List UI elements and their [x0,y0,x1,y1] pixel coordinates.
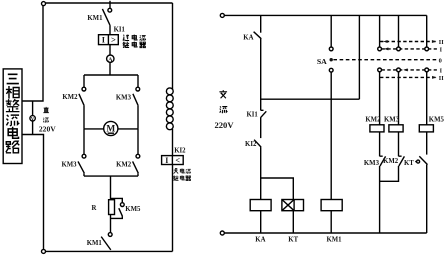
label: 欠电流继电器 (undercurrent relay) [173,169,190,181]
wire: selector column 1 upper [379,15,381,47]
node: SA position line I (lower, dashed) [382,69,437,71]
wire: undercurrent relay down to bottom bus [172,165,174,252]
switch SA selector (lower contact) [329,68,333,72]
inductor L smoothing reactor [166,88,173,130]
wire: KT coil to bottom bus [292,211,294,233]
svg-text:KI1: KI1 [114,27,126,34]
contact SA column3 upper circle [425,47,429,51]
svg-text:R: R [91,205,96,212]
wire: lower jog from rectifier box to bottom drop [22,135,43,250]
contact KM1 (lower, NO) [108,233,112,237]
contact KM2 (bridge upper-left, NO) [82,87,86,91]
svg-text:220V: 220V [214,120,234,130]
wire: bridge left upper arm [83,75,85,87]
svg-text:KM3: KM3 [61,161,77,168]
contact KI1 (NC, overcurrent) [260,110,266,118]
wire: KM5 coil down to KT contact [426,132,428,155]
wire: KM5 bypass branch top [111,198,123,202]
box U1: three-phase rectifier block 三相整流电路 [3,69,22,164]
svg-text:KM3: KM3 [384,116,400,123]
wire: right branch of left circuit (to smoothing reactor) [172,3,174,90]
svg-text:KM2: KM2 [365,116,381,123]
svg-text:KM1: KM1 [87,15,103,22]
svg-text:0: 0 [439,57,442,64]
svg-text:KM1: KM1 [326,237,342,244]
wire: center drop from bridge to resistor [110,176,112,200]
svg-text:KM2: KM2 [383,158,399,165]
svg-text:KA: KA [255,237,265,244]
wire: KA contact down to junction [260,39,262,111]
contact SA column2 lower circle + wire to coil [397,68,401,72]
coil KM1 [321,200,342,211]
motor M (DC motor) [104,121,118,135]
wire: ammeter to bridge top [109,62,111,75]
wire: bridge lower-left arm [83,129,85,154]
wire: KM2 interlock merge bar [380,166,399,181]
svg-text:KT: KT [404,160,414,167]
contact SA column1 lower circle + wire to coil [378,68,382,72]
resistor R [109,200,115,215]
coil KT (time relay, box with X cell) [282,200,304,211]
wire: KM5 bypass branch bottom [111,216,123,218]
switch SA pivot dot [330,58,333,61]
svg-text:KM3: KM3 [364,160,380,167]
svg-text:A: A [108,56,113,63]
wire: resistor to KM1 lower [110,215,112,233]
terminal: control circuit bottom-left terminal [220,231,224,235]
contact KA (NO) [254,32,262,39]
wire: riser from top bus [358,15,360,99]
contact KI2 (NO, undercurrent) [254,140,261,147]
contact SA column3 upper circle + wire [426,15,428,47]
contact KM2 (bridge lower-right, NO) [136,154,140,158]
wire: SA branch down to KM1 coil [330,72,332,199]
svg-text:KI1: KI1 [246,111,258,118]
contact SA column2 upper circle [397,47,401,51]
wire: top bus of control circuit [224,14,426,16]
wire: lower-right arm to bottom bar [137,173,139,176]
svg-text:KI2: KI2 [245,141,257,148]
contact KM5 (bypass, NO) [120,203,124,207]
svg-text:KM1: KM1 [87,240,103,247]
svg-text:II: II [439,39,444,46]
contact KM1 (upper, NO) [108,8,112,12]
wire: bridge right upper arm [137,75,139,87]
wire: bridge middle bar [84,128,138,130]
wire: KA branch from top bus [260,15,262,32]
contact KM3 (bridge upper-right, NO) [136,87,140,91]
coil KA [250,200,271,211]
wire: left drop from top bus to rectifier box [22,6,43,101]
wire: KM3 coil down to KM2 interlock [398,132,400,156]
wire: KT contact down to bottom bus corner [426,165,428,233]
wire: KM2 coil down to KM3 interlock [379,132,381,156]
svg-text:II: II [439,75,444,82]
switch SA selector (upper contact) [329,47,333,51]
contact KT (time-delay) [415,156,427,164]
node: SA position line II (upper, dashed) [380,41,437,43]
wire: bottom bus of control circuit [224,232,426,234]
meter PA ammeter A [107,55,114,62]
wire: KA coil to bottom bus [260,211,262,233]
svg-text:KA: KA [243,35,253,42]
wire: SA branch upper [330,15,332,47]
wire: reactor to undercurrent relay [172,129,174,156]
coil KM2 [370,125,384,132]
contact SA column2 upper circle + wire [398,15,400,47]
relay KI1 overcurrent element box [99,35,119,45]
svg-text:>: > [111,35,116,45]
wire: KI1 to KI2 [260,118,262,138]
node: SA position line II (lower, dashed) [380,76,437,78]
terminal: top-left open terminal [42,2,46,6]
wire: stub from top bus down to KM1 [109,1,111,9]
node: SA position line 0 (dashed handle line) [333,59,437,61]
wire: lower-left arm to bottom bar [83,173,85,176]
svg-text:SA: SA [317,57,327,66]
wire: bridge lower-right arm [137,129,139,154]
wire: junction bar to KT branch [261,178,294,200]
label: DC supply 直流 [43,107,49,123]
contact SA column1 upper circle [378,47,382,51]
wire: KM1 to overcurrent relay [109,25,111,35]
wire: bridge top bar [84,74,138,76]
svg-text:KM3: KM3 [116,94,132,101]
svg-text:KM5: KM5 [429,116,444,123]
wire: KM1 coil to bottom bus [330,211,332,233]
contact KM3 (interlock NC) [380,156,386,166]
svg-text:<: < [175,156,180,165]
wire: interlock to bottom bus [379,166,381,233]
terminal: control circuit top-left terminal [220,13,224,17]
coil KM3 [389,125,403,132]
svg-text:KM2: KM2 [62,94,78,101]
contact SA column3 lower circle + wire to coil [425,68,429,72]
node: SA position line I (upper, dashed) [382,48,437,50]
label: AC supply 交流 [219,90,227,113]
wire: bridge bottom bar [84,175,138,177]
svg-text:220V: 220V [39,124,56,133]
wire: KI2 down to coil junction [260,147,262,199]
svg-text:KM5: KM5 [125,206,141,213]
svg-text:KT: KT [288,237,298,244]
wire: relay to ammeter [109,45,111,55]
wire: upper-right arm to middle bar [137,106,139,129]
wire: junction bar to SA riser [261,98,360,100]
wire: bottom bus of left circuit [46,250,173,252]
wire: top bus of left circuit [43,2,173,4]
wire: voltmeter branch upper [32,101,34,116]
terminal: bottom-left open terminal [42,249,46,253]
relay KI2 undercurrent element box [162,156,184,165]
meter PV voltmeter V [30,116,35,121]
contact KM3 (bridge lower-left, NO) [82,154,86,158]
svg-text:I: I [165,156,168,165]
wire: upper-left arm to middle bar [83,106,85,129]
contact KM2 (interlock NC) [399,156,405,166]
svg-text:I: I [102,36,105,45]
svg-text:KM2: KM2 [116,162,132,169]
coil KM5 [419,125,433,132]
wire: voltmeter branch lower [32,121,34,135]
svg-text:KI2: KI2 [174,147,186,154]
label: 过电流继电器 (overcurrent relay) [123,35,146,48]
